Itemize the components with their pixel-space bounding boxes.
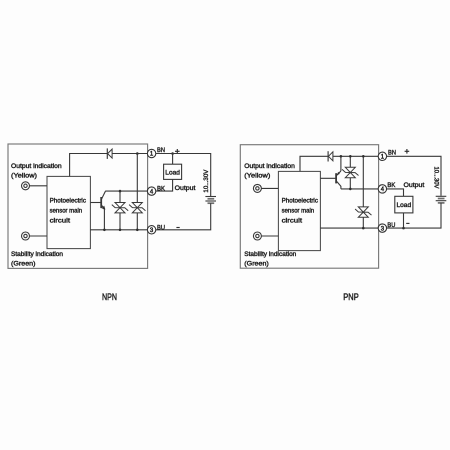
node: Z3 / BN junction (349, 155, 352, 158)
svg-text:Load: Load (397, 202, 412, 209)
terminal 4 (BK) PNP (378, 185, 386, 193)
wire: zener Z4 branch (BN to BU) (362, 156, 364, 228)
wire: BU rail (90, 229, 147, 231)
terminal 3 (BU) (147, 226, 155, 234)
wire: zener Z2 branch (BN to BU) (136, 154, 138, 230)
svg-text:Output indication: Output indication (244, 163, 295, 170)
label: Output indication (Yellow) PNP (244, 163, 295, 179)
load resistor box (PNP) (395, 196, 413, 213)
svg-text:sensor main: sensor main (282, 207, 315, 214)
LED indicator (green stability LED) (22, 232, 30, 240)
wire: BU rail PNP (320, 227, 378, 229)
wire: emitter up to BN rail PNP (340, 156, 342, 171)
photoelectric sensor main circuit block U2 (278, 171, 320, 250)
sensor enclosure box (NPN) (8, 144, 148, 268)
terminal 1 (BN) (147, 149, 155, 157)
wire: BN junction down to load (172, 154, 174, 165)
label: Output indication (Yellow) (11, 163, 62, 179)
wire: load bottom to terminal 4 (156, 179, 173, 191)
terminal 4 (BK) (147, 187, 155, 195)
svg-text:Output indication: Output indication (11, 163, 62, 170)
node: Z3 / BK junction (349, 188, 352, 191)
wire: BK rail (collector to terminal 4) (105, 190, 147, 192)
wire: circuit top to BN rail (70, 154, 148, 177)
zener/TVS diode Z2 (129, 203, 145, 213)
wire: battery minus to terminal 3 (156, 203, 211, 230)
LED indicator (green stability LED) PNP (253, 232, 261, 240)
svg-text:Output: Output (175, 185, 196, 192)
node: Z4 / BN junction (362, 155, 365, 158)
transistor Q1 (NPN output transistor) (90, 191, 105, 209)
node: BK / Z1 junction (119, 190, 122, 193)
svg-text:BU: BU (157, 225, 165, 232)
svg-text:Photoelectric: Photoelectric (282, 197, 319, 204)
zener/TVS diode Z4 (355, 207, 371, 217)
svg-text:Stability indication: Stability indication (244, 251, 296, 258)
wire: yellow LED to circuit block (30, 185, 48, 187)
svg-text:Load: Load (165, 169, 180, 176)
transistor Q2 (PNP output transistor) (320, 171, 341, 186)
label: - (supply minus) (176, 227, 179, 229)
svg-text:(Green): (Green) (11, 260, 36, 267)
zener/TVS diode Z3 (342, 167, 358, 177)
node: Z4 / BU junction (362, 227, 365, 230)
svg-text:(Yellow): (Yellow) (11, 172, 37, 179)
node: emitter / BN junction (340, 155, 343, 158)
wire: zener Z3 branch (BN to BK) (349, 156, 351, 189)
wire: load bottom to BU rail PNP (403, 213, 405, 228)
node: emitter / BU junction (103, 229, 106, 232)
svg-text:Stability indication: Stability indication (11, 251, 63, 258)
node: BN / load junction (171, 152, 174, 155)
svg-text:10...30V: 10...30V (203, 169, 210, 193)
wire: zener Z1 branch (BK to BU) (119, 191, 121, 230)
diode D1 in BN rail (107, 148, 112, 159)
label: + (supply plus) (175, 149, 180, 154)
wire: green LED to circuit block PNP (261, 235, 278, 237)
svg-text:10...30V: 10...30V (433, 167, 440, 190)
battery B1 (10...30V supply) (205, 197, 216, 204)
svg-text:Output: Output (404, 182, 425, 189)
sensor enclosure box (PNP) (240, 145, 378, 269)
photoelectric sensor main circuit block U1 (47, 176, 90, 248)
wire: yellow LED to circuit block PNP (261, 187, 278, 189)
label: + (supply plus) PNP (405, 149, 410, 154)
load resistor box (NPN) (164, 164, 182, 179)
wire: circuit top to BN rail PNP (300, 156, 378, 171)
svg-text:circuit: circuit (282, 217, 303, 224)
battery B2 (10...30V supply) (436, 196, 447, 203)
LED indicator (yellow output LED) PNP (253, 184, 261, 192)
svg-text:PNP: PNP (343, 292, 358, 302)
svg-text:NPN: NPN (102, 292, 117, 302)
node: Z1 / BU junction (119, 229, 122, 232)
node: Z2 / BU junction (136, 229, 139, 232)
svg-text:Photoelectric: Photoelectric (50, 197, 87, 204)
svg-text:BN: BN (388, 150, 396, 157)
terminal 1 (BN) PNP (378, 152, 386, 160)
node: BN / zener Z2 junction (136, 152, 139, 155)
terminal 3 (BU) PNP (378, 224, 386, 232)
wire: terminal 1 to battery plus PNP (387, 156, 441, 196)
svg-text:(Yellow): (Yellow) (244, 172, 270, 179)
wire: collector down to BK rail PNP (340, 186, 342, 189)
label: - (supply minus) PNP (406, 222, 409, 224)
label: Stability indication (Green) PNP (244, 251, 296, 267)
svg-text:circuit: circuit (50, 217, 71, 224)
wire: green LED to circuit block (30, 235, 48, 237)
svg-text:BU: BU (387, 222, 395, 229)
LED indicator (yellow output LED) (22, 182, 30, 190)
wire: battery minus to terminal 3 PNP (387, 203, 441, 228)
zener/TVS diode Z1 (112, 203, 128, 213)
svg-text:sensor main: sensor main (50, 207, 83, 214)
diode D2 in BN rail PNP (328, 151, 333, 161)
svg-text:BK: BK (157, 185, 165, 192)
wire: terminal 4 to load PNP (387, 189, 404, 196)
wire: BK rail PNP (341, 188, 378, 190)
node: load / BU junction PNP (402, 227, 405, 230)
wire: emitter to BU rail (103, 209, 105, 230)
label: Stability indication (Green) (11, 251, 63, 267)
svg-text:(Green): (Green) (244, 260, 268, 267)
svg-text:BK: BK (387, 182, 395, 189)
wire: terminal 1 to battery plus (156, 154, 211, 197)
